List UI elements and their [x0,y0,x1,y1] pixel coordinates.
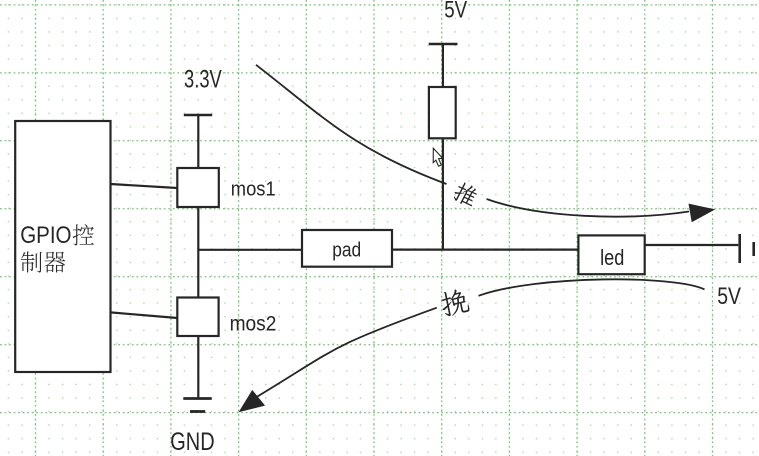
svg-text:3.3V: 3.3V [184,66,222,94]
push arrowhead [689,204,714,221]
pad box [302,230,392,267]
wire led to battery terminal [645,244,739,246]
wire 5V rail down to resistor [442,44,444,87]
battery terminal short bar [752,242,755,256]
power rail bar 5V [429,43,458,46]
power rail bar 3.3V [184,114,212,117]
mos1 box [177,168,219,207]
wire bus junction to pad [198,249,302,251]
mouse cursor [433,148,442,166]
svg-text:mos1: mos1 [231,177,276,200]
led box [578,235,644,274]
label zhi char [21,252,42,273]
wire pad to led [392,249,578,251]
mos2 box [177,298,218,337]
pull arrowhead [240,391,265,412]
label qi char [44,252,65,273]
wire GPIO to mos2 [111,312,178,318]
wire mos2 to ground [197,336,199,398]
svg-text:led: led [600,245,624,270]
svg-text:pad: pad [332,239,361,262]
resistor R (5V pull-up) [429,87,456,138]
svg-text:5V: 5V [444,0,467,24]
pull curve right segment [479,279,705,295]
svg-text:5V: 5V [717,283,741,310]
label tui (push) char [451,180,480,209]
svg-text:GPIO: GPIO [20,222,71,249]
label wan (pull) char [439,288,470,318]
wire 3.3V rail down to mos1 [197,115,199,168]
label GPIO kong char [73,224,94,245]
wire GPIO to mos1 [111,184,178,188]
battery terminal long bar [738,234,741,263]
wire resistor down to bus junction [442,138,444,250]
svg-text:GND: GND [170,428,214,456]
push curve left segment [256,65,447,184]
svg-text:mos2: mos2 [230,313,277,336]
ground symbol long bar [183,397,211,400]
push curve right segment [487,199,689,217]
ground symbol short bar [190,410,205,413]
wire mos1 to mos2 through bus junction [197,207,199,298]
pull curve left segment [252,308,437,400]
GPIO controller box [15,121,110,372]
